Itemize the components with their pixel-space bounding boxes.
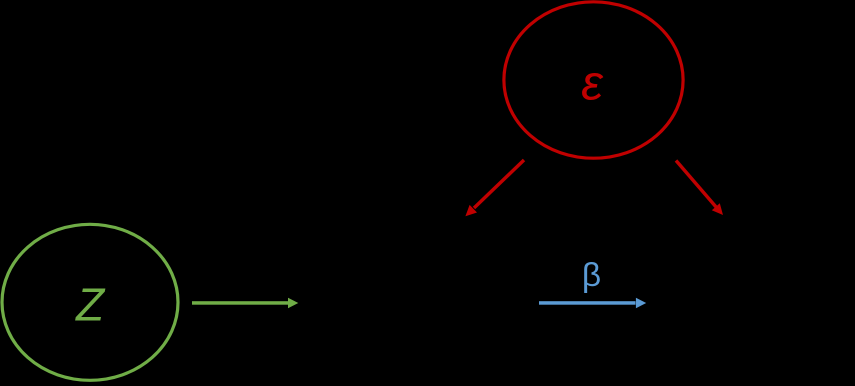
svg-text:Z: Z (75, 279, 106, 331)
arrow epsilon to X (red, down-left) (465, 160, 524, 216)
arrow epsilon to Y (red, down-right) (676, 161, 723, 216)
node Z (instrument) ellipse (2, 224, 178, 380)
svg-text:β: β (582, 257, 601, 294)
arrow Z to X (green, horizontal) (192, 298, 298, 309)
svg-text:ε: ε (581, 57, 604, 111)
node epsilon (confounder) ellipse (504, 2, 683, 158)
arrow X to Y (blue, horizontal) (539, 298, 646, 309)
